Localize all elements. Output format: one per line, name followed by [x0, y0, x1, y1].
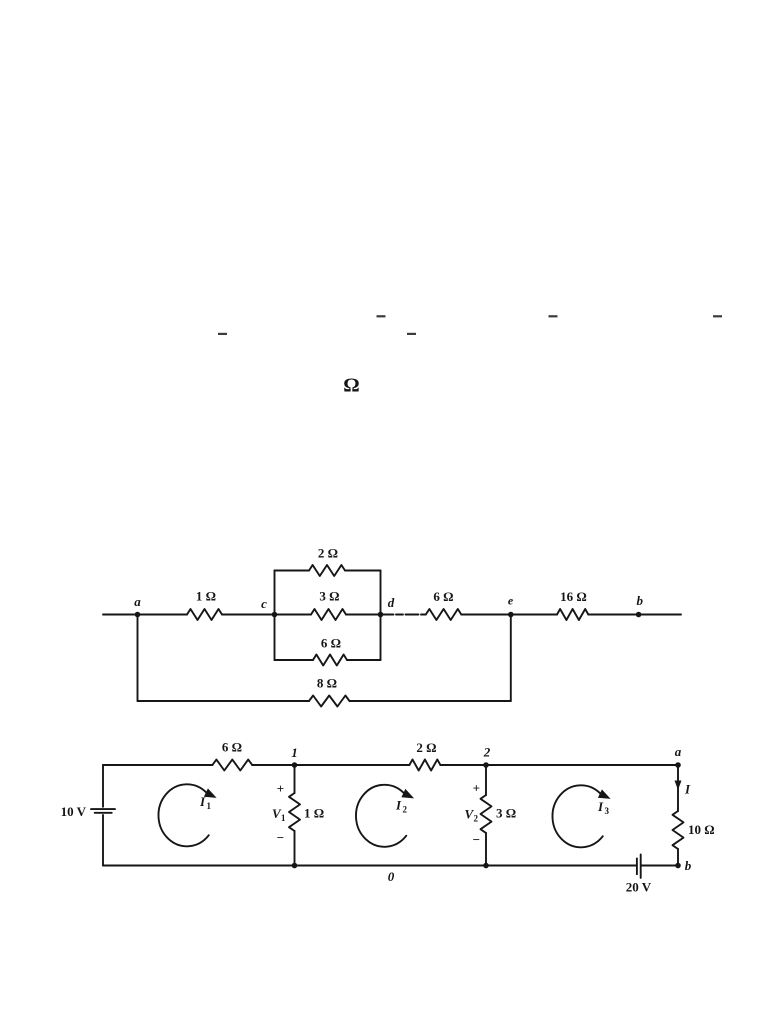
- node 2 bottom junction: [483, 863, 489, 869]
- node 1: [291, 745, 298, 768]
- node a: [134, 594, 141, 617]
- svg-text:16 Ω: 16 Ω: [560, 589, 587, 604]
- svg-text:2: 2: [403, 805, 408, 815]
- svg-text:b: b: [685, 858, 692, 873]
- svg-text:8 Ω: 8 Ω: [317, 676, 337, 691]
- node b (bottom circuit): [675, 858, 692, 873]
- svg-text:a: a: [675, 744, 682, 759]
- wire: bottom parallel branch right lead: [347, 659, 381, 661]
- mesh current I2 loop arrow: [356, 785, 414, 847]
- wire: node 1 lead down: [294, 765, 296, 793]
- svg-text:3 Ω: 3 Ω: [496, 806, 516, 821]
- resistor 2 Ohm (top parallel branch): [309, 546, 345, 577]
- node e: [508, 594, 514, 618]
- wire: top parallel branch right lead: [345, 570, 381, 572]
- svg-text:2 Ω: 2 Ω: [318, 546, 338, 561]
- svg-text:c: c: [261, 596, 267, 611]
- svg-text:+: +: [473, 781, 480, 796]
- svg-text:2 Ω: 2 Ω: [416, 740, 436, 755]
- faint dash mark 5: [407, 333, 416, 335]
- wire: 2-ohm to node a (top right): [440, 764, 678, 766]
- resistor 16 Ohm (between e and b): [557, 589, 588, 620]
- svg-text:b: b: [637, 593, 644, 608]
- resistor 1 Ohm (between a and c): [187, 589, 222, 621]
- svg-text:3 Ω: 3 Ω: [319, 589, 339, 604]
- svg-text:3: 3: [605, 806, 610, 816]
- resistor 6 Ohm (bottom parallel branch): [313, 636, 347, 666]
- wire: left vertical above battery: [102, 765, 104, 807]
- svg-text:10 Ω: 10 Ω: [688, 822, 715, 837]
- node b: [636, 593, 644, 617]
- node a (bottom circuit top right): [675, 744, 682, 768]
- wire: lower branch right horizontal: [350, 700, 511, 702]
- mesh current I1 loop arrow: [158, 784, 216, 846]
- current arrow I: [675, 781, 692, 797]
- resistor 3 Ohm (V2 branch): [481, 795, 517, 833]
- svg-text:2: 2: [474, 814, 479, 824]
- wire: lower branch left horizontal: [138, 700, 310, 702]
- node d: [378, 595, 395, 617]
- resistor 1 Ohm (V1 branch): [289, 793, 324, 831]
- svg-text:I: I: [684, 782, 691, 797]
- wire: 1-ohm to bottom rail: [294, 831, 296, 866]
- svg-text:I: I: [597, 799, 604, 814]
- svg-text:1: 1: [207, 801, 212, 811]
- wire: 1-ohm resistor to node c: [222, 614, 275, 616]
- wire: right vertical from node a: [677, 765, 679, 811]
- svg-text:1: 1: [281, 813, 286, 823]
- wire: 6-ohm resistor to node e: [461, 614, 511, 616]
- svg-text:+: +: [277, 781, 284, 796]
- wire: 10-ohm to node b: [677, 849, 679, 866]
- svg-text:2: 2: [483, 745, 491, 760]
- node 1 bottom junction: [292, 863, 298, 869]
- svg-text:6 Ω: 6 Ω: [321, 636, 341, 651]
- wire: node d to 6-ohm resistor: [381, 614, 426, 616]
- wire: top circuit main horizontal line (left lead to node c): [103, 614, 187, 616]
- svg-text:1 Ω: 1 Ω: [304, 806, 324, 821]
- resistor 8 Ohm (lower branch): [309, 676, 350, 707]
- wire: top parallel branch left lead: [275, 570, 310, 572]
- svg-text:Ω: Ω: [343, 375, 359, 397]
- wire: bottom wire right of battery to node b: [642, 865, 679, 867]
- svg-text:−: −: [473, 832, 480, 847]
- resistor 10 Ohm (right branch): [673, 811, 715, 849]
- wire: node 2 lead down: [485, 765, 487, 795]
- mesh current I3 loop arrow: [552, 785, 610, 847]
- wire: 16-ohm resistor to node b and right lead: [588, 614, 681, 616]
- wire: parallel box right vertical (node d): [380, 571, 382, 661]
- faint dash mark 2: [549, 315, 558, 317]
- svg-text:6 Ω: 6 Ω: [222, 740, 242, 755]
- wire: parallel box left vertical (node c): [274, 571, 276, 661]
- svg-text:1: 1: [291, 745, 298, 760]
- resistor 3 Ohm (middle parallel branch): [275, 589, 381, 621]
- wire: left vertical below battery: [102, 815, 104, 866]
- V2 label with polarity: [465, 781, 481, 848]
- svg-text:d: d: [388, 595, 395, 610]
- resistor 6 Ohm (top left, bottom circuit): [212, 740, 252, 771]
- svg-text:0: 0: [388, 869, 395, 884]
- svg-text:I: I: [199, 794, 206, 809]
- faint dash mark 4: [218, 333, 227, 335]
- svg-text:a: a: [134, 594, 141, 609]
- node 2: [483, 745, 491, 768]
- svg-text:I: I: [395, 798, 402, 813]
- node 0 label: [388, 869, 395, 884]
- wire: 6-ohm to node 1: [252, 764, 409, 766]
- svg-text:e: e: [508, 594, 514, 608]
- wire: vertical from node a down to lower branch: [137, 615, 139, 702]
- resistor 2 Ohm (top middle, bottom circuit): [409, 740, 440, 771]
- svg-text:20 V: 20 V: [626, 880, 652, 895]
- faint dash mark 3: [713, 315, 722, 317]
- wire: bottom horizontal (node 0 rail): [103, 865, 636, 867]
- wire: bottom parallel branch left lead: [275, 659, 314, 661]
- resistor 6 Ohm (between d and e): [426, 589, 462, 620]
- V1 label with polarity: [272, 781, 286, 845]
- svg-text:1 Ω: 1 Ω: [196, 589, 216, 604]
- wire: node e to 16-ohm resistor: [511, 614, 557, 616]
- battery 10 V: [61, 804, 115, 819]
- faint dash mark 1: [377, 315, 386, 317]
- svg-text:10 V: 10 V: [61, 804, 87, 819]
- wire: 3-ohm to bottom rail: [485, 833, 487, 866]
- wire: bottom circuit top-left segment: [103, 764, 212, 766]
- wire: vertical up to node e: [510, 615, 512, 702]
- svg-text:−: −: [277, 830, 284, 845]
- svg-text:6 Ω: 6 Ω: [433, 589, 453, 604]
- node c: [261, 596, 277, 617]
- battery 20 V: [626, 855, 652, 895]
